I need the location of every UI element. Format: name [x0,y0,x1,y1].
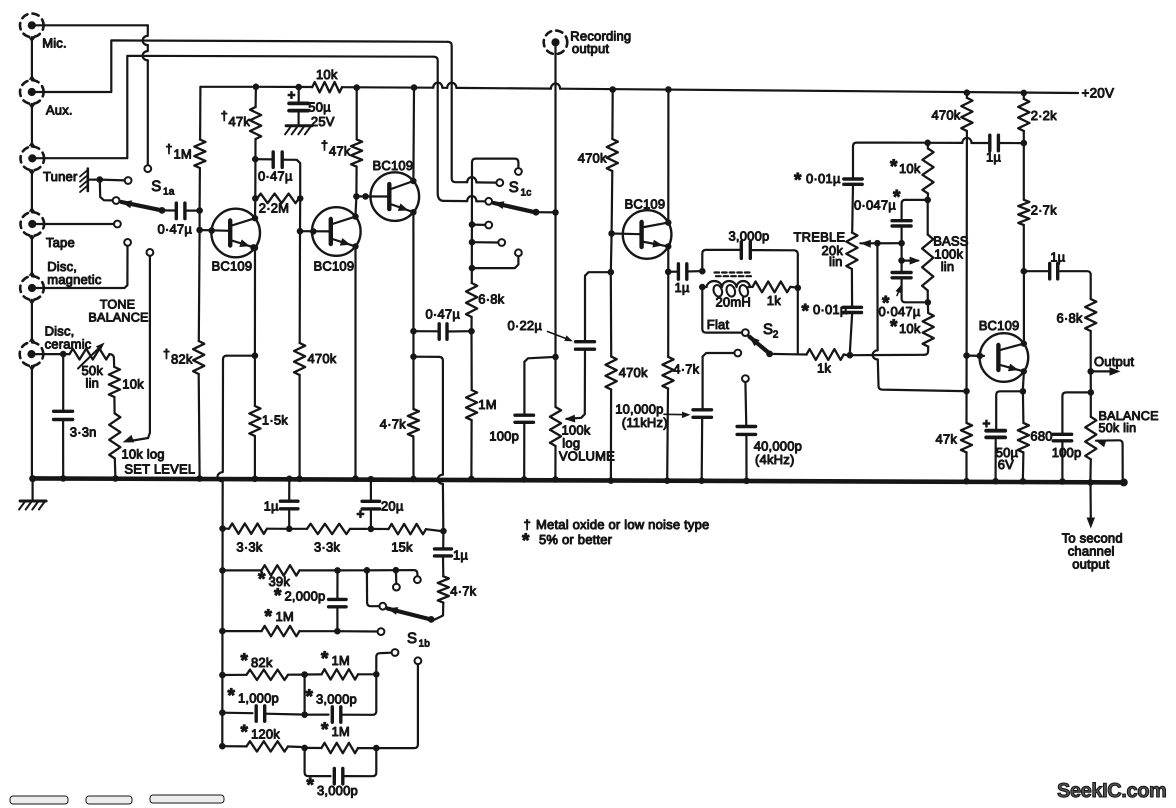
svg-text:1a: 1a [163,187,175,198]
node 100p out ground [1059,478,1066,485]
node 82k ground [196,475,203,482]
wire row3 to contacts [367,569,393,571]
S1c switch arm [493,201,555,215]
label S1c [509,179,532,199]
node 680 ground [1020,478,1027,485]
svg-text:120k: 120k [251,727,280,742]
footnote 5 percent [522,531,613,552]
node S1c row2 [469,239,499,246]
node filter input [699,268,706,275]
resistor 1k filter [748,282,795,309]
node S1b row1 left [219,525,226,532]
svg-text:(4kHz): (4kHz) [755,452,794,467]
S1a contact Mic [144,165,151,172]
svg-text:1k: 1k [767,293,781,308]
node Q2 collector Q3 base [353,193,369,200]
potentiometer 50k lin [63,343,109,391]
S1b contact F [380,657,422,748]
BALANCE wiper [1095,440,1122,478]
capacitor 100p output [1052,392,1091,479]
svg-text:(11kHz): (11kHz) [622,415,668,430]
capacitor 0.01µ lower [802,301,862,352]
capacitor 0.047µ upper [854,187,928,273]
node 470k ground [296,476,303,483]
node 10000p ground [698,477,705,484]
svg-text:+20V: +20V [1082,86,1115,101]
node tone left bottom [847,352,854,359]
resistor 3.3k a [223,524,286,555]
capacitor 1µ feedback [435,531,469,576]
input jack Aux [20,80,73,117]
node 470k Q5 rail [964,89,971,96]
label TONE BALANCE [88,298,148,325]
svg-text:6·8k: 6·8k [478,292,504,307]
node 2.2k rail [1021,90,1028,97]
node S1b r2 b [368,526,375,533]
wire to balance [1090,371,1092,389]
svg-text:470k: 470k [578,151,607,166]
svg-text:3·3k: 3·3k [314,540,340,555]
S1a contact selected [113,197,120,204]
node S1c row3 [469,265,476,272]
node balance top [1088,389,1095,396]
S1b contact C [367,570,386,609]
node 47k ground [963,478,970,485]
svg-text:1µ: 1µ [453,548,468,563]
node stub A top [393,567,400,574]
node 0.47µ right [468,328,475,335]
wire Q4 collector to rail [665,86,672,223]
svg-text:lin: lin [829,254,843,269]
transistor Q3 BC109 [371,158,420,221]
svg-text:*: * [890,317,898,338]
resistor 10k tone upper [890,143,934,200]
S1c contact Aux [496,179,503,186]
S1a switch arm [121,200,165,213]
wire Q2 emitter ground [352,248,359,482]
node S1b row6 left [219,709,226,716]
svg-text:VOLUME: VOLUME [559,449,615,464]
S1a contact Disc magnetic [124,239,131,246]
svg-text:0·47µ: 0·47µ [258,169,293,184]
node S1c row1 [469,221,486,228]
node 4.7k Q4 ground [664,477,671,484]
potentiometer BASS 100k lin [922,200,969,302]
svg-text:470k: 470k [619,365,648,380]
wire emitter to S1b network [218,356,255,529]
resistor 1M input [166,87,206,211]
svg-text:2·7k: 2·7k [1031,203,1057,218]
resistor 1M row4 [222,607,334,637]
svg-text:10k: 10k [899,321,921,336]
capacitor 0.47µ S1a [158,203,197,236]
node S1c wiper junction [552,209,559,216]
svg-text:3,000p: 3,000p [316,692,357,707]
svg-text:50k lin: 50k lin [1099,421,1137,435]
svg-text:0·047µ: 0·047µ [854,198,896,213]
svg-text:100p: 100p [1052,445,1082,460]
svg-text:Flat: Flat [707,317,730,332]
svg-text:1c: 1c [521,188,532,199]
svg-text:SET LEVEL: SET LEVEL [124,462,195,477]
wire to contact B [396,570,418,576]
wire Aux to S1c [36,40,497,182]
node 2.2k 2.7k junction [1021,140,1028,147]
resistor 4.7k Q4 [662,357,699,479]
wire line A [850,347,928,356]
resistor 3.3k b [289,524,367,555]
svg-text:Tuner: Tuner [43,169,78,184]
svg-text:0·047µ: 0·047µ [879,304,921,319]
svg-text:1µ: 1µ [986,150,1001,165]
svg-text:*: * [890,157,898,178]
capacitor 2000p [274,570,346,631]
svg-text:S: S [509,179,519,196]
node Q5 emitter junction [1020,388,1027,395]
node r7 mid [301,745,308,752]
wire filter output down [797,288,799,355]
ground symbol 50µ [285,111,312,135]
node output [1087,368,1094,375]
resistor 1M row5 [305,649,373,680]
svg-text:*: * [307,775,315,796]
node balance ground [1087,479,1094,486]
svg-text:47k: 47k [936,432,958,447]
svg-text:0·47µ: 0·47µ [426,307,461,322]
S1c contact 6 [472,249,522,268]
node S1a hatch junction [97,176,104,183]
svg-text:3,000p: 3,000p [729,229,770,244]
capacitor 1µ filter [668,264,699,295]
svg-text:*: * [794,170,802,191]
node 15k junction [440,528,447,535]
svg-text:BC109: BC109 [373,158,414,173]
wire row3 right [338,569,365,571]
capacitor 0.22µ [508,272,611,422]
node Q1 collector [252,195,259,202]
ground symbol left [19,475,46,509]
wire Q1 collector [254,198,257,219]
capacitor 10000p [615,402,711,479]
svg-text:BC109: BC109 [212,259,253,274]
svg-text:†: † [221,109,228,123]
svg-text:1µ: 1µ [1050,250,1065,265]
chassis hatch at Tuner [80,169,97,193]
svg-text:1M: 1M [478,397,496,412]
svg-text:output: output [1072,557,1110,572]
resistor 470k Q2 base [294,231,337,477]
svg-text:680: 680 [1030,429,1052,444]
wire 50k to 10k [110,354,115,367]
svg-text:10k: 10k [316,67,338,82]
wire Q3 emitter [412,212,414,409]
svg-text:*: * [258,569,266,590]
S2 contact 40000p [742,375,749,426]
node bass wiper mid [898,257,905,264]
label S2 [763,321,779,341]
resistor 2.2k [1018,93,1057,143]
wire S1c top bracket [472,159,518,168]
node bass bottom [925,299,932,306]
potentiometer 10k log SET LEVEL [109,414,195,478]
node 470k rail [609,86,616,93]
resistor 1M row7 [305,720,377,754]
node 1.5k ground [252,476,259,483]
svg-text:6·8k: 6·8k [1057,311,1083,326]
svg-text:3,000p: 3,000p [317,783,358,798]
node volume ground [552,476,559,483]
wire r5-r6 vertical [304,675,306,715]
S1a contact mute [125,177,132,184]
node treble wiper [874,240,881,247]
svg-text:S: S [151,178,161,195]
svg-text:2·2M: 2·2M [259,201,289,216]
node 2000p top [334,567,341,574]
svg-text:10k: 10k [899,161,921,176]
capacitor 20µ S1b [357,476,404,529]
S1b contact E [392,649,399,656]
svg-text:25V: 25V [311,114,335,129]
svg-text:BC109: BC109 [979,318,1020,333]
wire Tuner to S1c wiper [36,56,485,202]
svg-text:Aux.: Aux. [46,103,73,118]
resistor 1k S2 [795,349,847,375]
wire Q1 emitter [250,244,257,356]
capacitor 0.047µ lower [879,273,925,319]
capacitor 0.47µ Q3 out [414,307,472,340]
svg-text:2·2k: 2·2k [1031,108,1057,123]
svg-text:3·3k: 3·3k [236,540,262,555]
second channel arrow [1062,484,1123,572]
resistor 1M shunt [466,390,497,420]
svg-text:3·3n: 3·3n [70,425,97,440]
output arrow [1091,354,1135,376]
resistor 470k Q4 upper [578,90,618,234]
node set level ground [112,475,119,482]
node 100p ground [521,476,528,483]
svg-text:+: + [288,88,296,103]
svg-text:100p: 100p [489,429,519,444]
node bass mid upper [898,240,905,247]
node S1b r2 a [286,526,293,533]
node S1b row4 left [219,628,226,635]
svg-text:2: 2 [773,330,779,341]
svg-text:10k log: 10k log [121,447,164,462]
watermark SeekIC.com [1057,780,1166,802]
wire Q4 base [612,232,642,235]
wire to Q2 base [297,198,331,234]
wire Q5 emitter [1023,371,1024,389]
faint artifact bottom left [10,795,224,804]
node Q5 collector [1021,268,1028,275]
potentiometer BALANCE 50k lin [1085,392,1159,480]
potentiometer TREBLE 20k lin [794,230,858,308]
svg-text:50µ: 50µ [308,100,331,115]
wire feedback to S1b [414,357,444,528]
node r6 mid [301,711,308,718]
wire Q5 base [967,355,984,357]
svg-text:1M: 1M [332,724,350,739]
resistor 10k set [109,367,144,414]
node 4.7k ground [410,476,417,483]
svg-text:*: * [274,586,282,607]
svg-text:1k: 1k [817,361,831,376]
svg-text:*: * [228,686,236,707]
wire base Q1 [200,211,230,231]
svg-text:*: * [241,722,249,743]
S1a contact Tape [114,221,121,228]
S2 contact 10000p [703,350,742,410]
S1b contact D [378,628,385,635]
capacitor 1µ tone in [986,135,1020,164]
node 0.47µ left [252,156,259,163]
node S1b row7 left [219,743,226,750]
svg-text:BALANCE: BALANCE [88,311,148,325]
resistor 39k [223,565,335,590]
svg-text:S: S [407,630,417,647]
svg-text:82k: 82k [171,352,193,367]
node 1M bottom [196,207,203,214]
capacitor 1µ S1b [264,476,298,529]
transistor Q4 BC109 [623,197,672,259]
svg-text:0·22µ: 0·22µ [508,318,543,333]
svg-text:0·01µ: 0·01µ [813,302,848,317]
wire Tape to S1a [36,223,114,225]
wire Q4 emitter [667,246,669,357]
node rail Q2 47k [0,0,1,1]
wire ground rail [33,478,1124,482]
resistor 15k [371,524,440,555]
S1c vertical [471,162,473,283]
node feedback join [963,388,970,395]
resistor 470k Q4 lower [606,272,648,478]
input jack Tuner [21,147,78,184]
wire 1M ground [468,420,475,482]
BASS wiper [902,257,921,265]
svg-text:1M: 1M [332,653,350,668]
node r5 mid [301,671,308,678]
node r5 right [373,671,380,678]
svg-text:Mic.: Mic. [42,36,67,51]
svg-text:TONE: TONE [100,298,136,312]
svg-text:1b: 1b [419,639,431,650]
svg-text:+: + [983,416,991,431]
S1b contact B [414,576,421,583]
footnote metal oxide [524,517,710,532]
S1c contact 4 [485,222,492,229]
svg-text:15k: 15k [391,540,413,555]
node Q3 emitter 0.47µ [410,328,417,335]
capacitor 3000p row6 [305,674,377,722]
S1c contact top [515,168,522,175]
wire Q5 collector [1023,271,1025,344]
wire input ground bus [29,37,36,478]
S2 contact Flat [742,329,749,336]
svg-text:1·5k: 1·5k [262,413,288,428]
svg-text:BC109: BC109 [625,197,666,212]
node 47k top rail [253,84,260,91]
inductor 20mH [699,273,752,310]
node 47k rail [353,84,360,91]
svg-text:BC109: BC109 [314,259,355,274]
node Q3 emitter feedback [410,353,417,360]
wire hatch to contact [100,180,125,201]
node S1b row5 left [219,672,226,679]
svg-text:†: † [166,142,173,156]
svg-text:4·7k: 4·7k [380,417,406,432]
svg-text:magnetic: magnetic [47,272,102,287]
transistor Q2 BC109 [312,207,361,273]
capacitor 0.47µ interstage [255,152,300,195]
wire Disc magnetic to S1a [36,246,128,288]
wire tone top [853,138,990,146]
S1a contact set-level [147,249,154,256]
svg-text:output: output [572,41,610,56]
TREBLE wiper [860,240,899,248]
resistor 82k [163,230,204,477]
resistor 47k Q1 collector [221,87,261,199]
resistor 6.8k S1c [466,283,505,331]
svg-text:†: † [321,139,328,153]
svg-text:lin: lin [941,259,955,274]
svg-text:0·47µ: 0·47µ [158,222,193,237]
S2 switch arm [749,336,795,357]
svg-text:1M: 1M [276,609,294,624]
wire 6.8k to 1M [470,331,472,390]
S1c contact 5 [498,239,505,246]
node base Q1 [196,227,215,234]
wire Mic to S1a [36,25,148,165]
svg-text:0·01µ: 0·01µ [806,171,841,186]
wire recording vertical [554,46,556,407]
svg-text:1µ: 1µ [675,280,690,295]
S1c contact wiper [485,198,492,205]
capacitor 50µ 25V [288,84,335,129]
svg-text:5% or better: 5% or better [539,532,613,547]
resistor 680 [1018,391,1053,479]
svg-text:Tape: Tape [46,235,75,250]
resistor 120k [222,722,301,752]
svg-text:6V: 6V [998,457,1014,472]
resistor 470k Q5 [932,93,973,356]
capacitor 1µ output [1024,250,1091,300]
node Q4 base [608,230,615,237]
svg-text:47k: 47k [329,144,351,159]
input jack Tape [21,212,75,250]
svg-text:*: * [306,687,314,708]
label S1a [151,178,175,198]
node 470k lower ground [608,477,615,484]
wire Q2 collector [354,196,357,215]
svg-text:lin: lin [86,376,100,391]
svg-text:2,000p: 2,000p [285,589,326,604]
wire set-level wiper [123,256,150,443]
resistor 1.5k [249,356,288,477]
node r7 right [373,745,380,752]
node 40000p ground [743,478,750,485]
capacitor 1000p [222,686,301,722]
node Q1 emitter junction [252,352,259,359]
input jack Mic [20,13,67,50]
node bass top [924,197,931,204]
transistor Q1 BC109 [211,209,260,274]
svg-text:1M: 1M [174,147,192,162]
wire Q3 collector to rail [411,84,418,181]
capacitor 100p volume [489,357,555,478]
node armwire top [364,567,371,574]
svg-text:4·7k: 4·7k [450,584,476,599]
wire Q5 base to 47k [965,356,967,423]
